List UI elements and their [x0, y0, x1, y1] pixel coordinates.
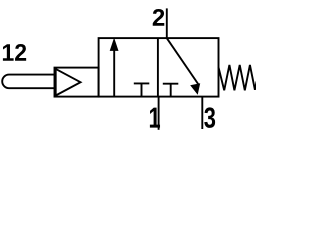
diagonal flow path 2 to 3 (right square) — [167, 38, 199, 84]
push-button plunger (stadium) — [2, 75, 54, 89]
actuator box — [55, 68, 99, 97]
return spring — [219, 65, 257, 90]
blocked port T (left square) — [134, 83, 150, 96]
valve body outline — [99, 38, 219, 97]
port 1 line — [158, 97, 160, 130]
actuator triangle (push direction) — [56, 69, 81, 96]
port 2 line — [166, 8, 168, 38]
port 3 line — [201, 97, 203, 129]
label 3 — [204, 107, 215, 128]
divider between squares — [157, 38, 159, 97]
flow arrow up (left square) — [113, 49, 115, 97]
label 12 (pilot/actuation number) — [3, 44, 14, 61]
label 1 — [150, 108, 160, 128]
label 2 — [153, 9, 165, 26]
blocked port T (right square) — [163, 84, 179, 97]
